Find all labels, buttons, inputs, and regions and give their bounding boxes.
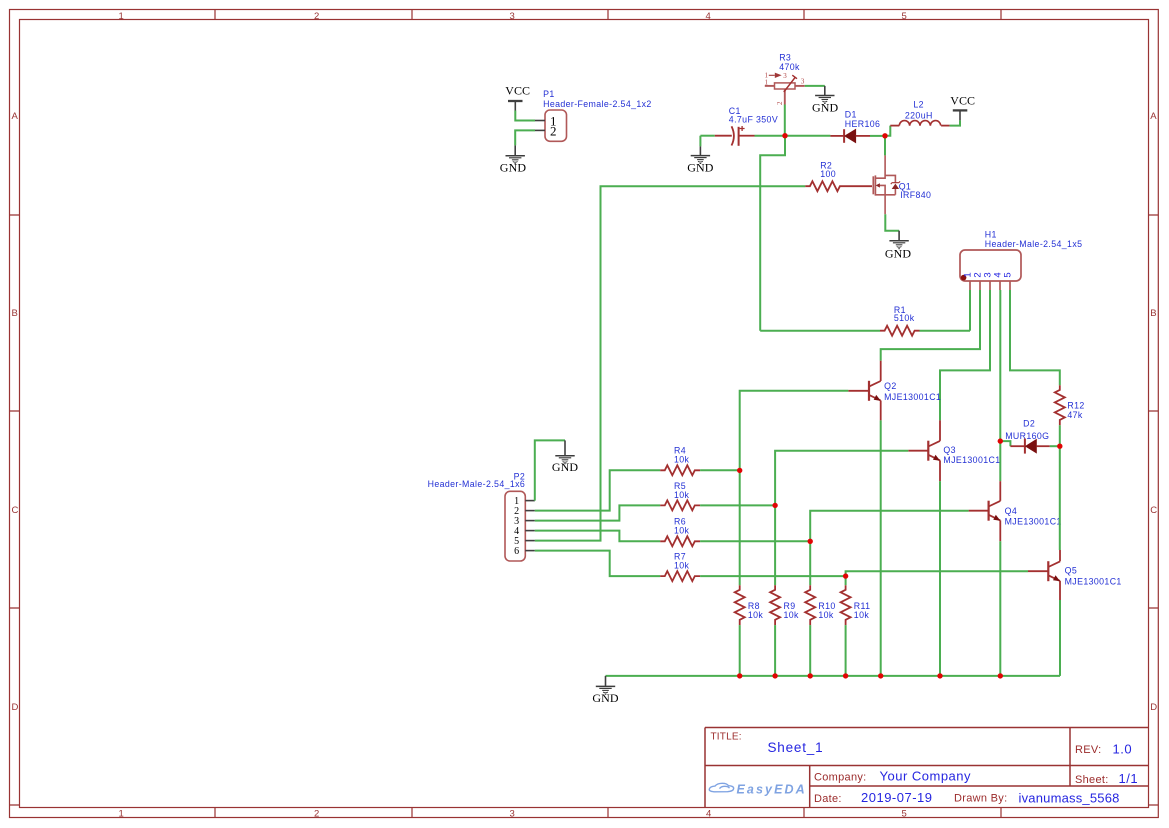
wire P2 pin3 to R5 — [535, 505, 660, 520]
junction bottom R8 — [737, 673, 742, 678]
wire Q2 base from R4 junction — [740, 391, 849, 471]
wire R6 junction down to R10 — [809, 541, 811, 585]
svg-text:MJE13001C1: MJE13001C1 — [943, 455, 1000, 465]
P2 pin 1 — [525, 500, 535, 502]
resistor R6 10k — [660, 517, 700, 547]
svg-text:510k: 510k — [894, 313, 915, 323]
resistor R2 100 — [805, 160, 872, 191]
P1 pin 2 — [535, 129, 545, 131]
wire D1 to junction B — [870, 135, 885, 137]
junction B (D1/L2/Q1 drain) — [882, 133, 887, 138]
connector H1 Header-Male-2.54_1x5 — [960, 229, 1082, 281]
diode D1 HER106 — [830, 109, 880, 143]
wire R4 junction down to R8 — [739, 471, 741, 586]
wire Q2 emitter down to bottom rail — [880, 420, 882, 676]
H1 pin 5 — [1009, 281, 1011, 290]
wire R5 to junction R5J — [700, 504, 775, 506]
wire junction B down to Q1 drain — [884, 136, 886, 156]
svg-text:D2: D2 — [1023, 418, 1035, 428]
wire junction B jog up to L2 — [885, 126, 890, 136]
wire Q4 collector from junction D2A — [999, 441, 1001, 481]
svg-text:220uH: 220uH — [905, 111, 933, 121]
wire VCC to P1 pin 1 — [515, 111, 535, 121]
transistor Q2 MJE13001C1 — [848, 361, 941, 421]
wire R3 pin 3 to GND — [805, 85, 825, 87]
svg-text:Sheet:: Sheet: — [1075, 774, 1109, 786]
junction bottom R9 — [772, 673, 777, 678]
wire D2 to junction D2B — [1050, 445, 1060, 447]
svg-text:REV:: REV: — [1075, 744, 1101, 756]
wire R4 to junction R4J — [700, 469, 740, 471]
transistor Q4 MJE13001C1 — [969, 481, 1062, 541]
H1 pin 4 — [999, 281, 1001, 290]
wire Q5 emitter down to bottom rail corner — [1059, 600, 1061, 676]
power flag VCC (P1) — [505, 84, 530, 111]
svg-text:Date:: Date: — [814, 793, 842, 805]
svg-text:GND: GND — [592, 691, 619, 705]
wire P2 pin1 up to GND — [535, 440, 565, 500]
wire top rail left to C1 — [700, 135, 714, 137]
svg-text:HER106: HER106 — [845, 119, 881, 129]
svg-text:MJE13001C1: MJE13001C1 — [1005, 516, 1062, 526]
junction bottom Q3 emitter — [937, 673, 942, 678]
svg-text:Header-Female-2.54_1x2: Header-Female-2.54_1x2 — [543, 99, 652, 109]
junction bottom Q4 emitter — [998, 673, 1003, 678]
resistor R5 10k — [660, 481, 700, 511]
svg-text:EasyEDA: EasyEDA — [737, 782, 807, 796]
svg-text:10k: 10k — [674, 560, 690, 570]
svg-text:1/1: 1/1 — [1119, 771, 1139, 786]
H1 pin 1 — [969, 281, 971, 290]
svg-text:5: 5 — [1002, 272, 1013, 277]
svg-text:GND: GND — [552, 460, 579, 474]
ground GND (P2) — [552, 440, 579, 474]
svg-text:5: 5 — [902, 808, 907, 819]
wire H1 pin1 down to R1 — [969, 290, 971, 331]
svg-text:100: 100 — [820, 169, 836, 179]
svg-text:10k: 10k — [674, 490, 690, 500]
junction bottom R10 — [808, 673, 813, 678]
svg-text:A: A — [1150, 111, 1157, 122]
wire R11 down to bottom rail — [845, 625, 847, 676]
svg-text:47k: 47k — [1067, 410, 1083, 420]
resistor R1 510k — [880, 305, 920, 336]
ground GND (Q1) — [885, 231, 912, 261]
wire H1 pin2 to Q2 collector — [881, 290, 980, 361]
svg-text:10k: 10k — [818, 610, 834, 620]
svg-text:B: B — [1150, 308, 1156, 319]
svg-text:D1: D1 — [845, 109, 857, 119]
wire Q5 base from R7 junction — [846, 571, 1028, 576]
wire R7 junction down to R11 — [845, 576, 847, 585]
junction R5/R9/Q3 base — [772, 503, 777, 508]
svg-text:10k: 10k — [854, 610, 870, 620]
svg-text:Company:: Company: — [814, 772, 867, 784]
wire junction A down-left jog to R1 column — [760, 136, 785, 331]
svg-text:Q5: Q5 — [1065, 565, 1078, 575]
svg-text:MUR160G: MUR160G — [1005, 431, 1049, 441]
svg-text:H1: H1 — [985, 229, 997, 239]
wire Q1 source to GND — [885, 214, 899, 230]
wire junction A to D1 — [785, 135, 830, 137]
svg-text:3: 3 — [510, 11, 515, 22]
svg-text:4: 4 — [706, 11, 711, 22]
junction bottom Q2 emitter — [878, 673, 883, 678]
P2 pin 6 — [525, 550, 535, 552]
svg-text:1: 1 — [119, 11, 124, 22]
ground GND (P1) — [500, 145, 527, 174]
P2 pin 5 — [525, 540, 535, 542]
P1 pin 1 — [535, 120, 545, 122]
ground GND (R3) — [812, 86, 839, 115]
svg-text:3: 3 — [510, 808, 515, 819]
svg-text:L2: L2 — [913, 100, 924, 110]
svg-text:2: 2 — [550, 123, 557, 138]
wire H1 pin5 to R12 — [1010, 290, 1060, 385]
wire Q4 emitter down to bottom rail — [999, 541, 1001, 676]
svg-text:Sheet_1: Sheet_1 — [768, 740, 824, 755]
junction R7/R11/Q5 base — [843, 573, 848, 578]
svg-text:2: 2 — [314, 808, 319, 819]
svg-text:5: 5 — [902, 11, 907, 22]
svg-text:Header-Male-2.54_1x6: Header-Male-2.54_1x6 — [428, 479, 526, 489]
svg-text:VCC: VCC — [950, 93, 975, 107]
wire P2 pin4 to R6 — [535, 531, 660, 542]
svg-text:MJE13001C1: MJE13001C1 — [1065, 576, 1122, 586]
svg-text:Drawn By:: Drawn By: — [954, 793, 1007, 805]
wire P1 pin 2 to GND — [515, 130, 535, 145]
resistor R8 10k — [735, 585, 764, 625]
resistor R11 10k — [841, 585, 871, 625]
svg-text:3: 3 — [783, 72, 787, 80]
ground GND (C1 left) — [687, 136, 714, 175]
junction R4/R8/Q2 base — [737, 468, 742, 473]
P2 pin 3 — [525, 520, 535, 522]
H1 pin 2 — [979, 281, 981, 290]
wire P2 pin5 to R2 (long) — [535, 186, 806, 540]
wire H1 pin3 to Q3 collector — [940, 290, 990, 420]
transistor Q5 MJE13001C1 — [1028, 550, 1122, 600]
svg-text:MJE13001C1: MJE13001C1 — [884, 392, 941, 402]
svg-text:C: C — [12, 505, 19, 516]
wire bottom ground rail — [606, 675, 1061, 677]
wire C1 to junction A — [755, 135, 786, 137]
wire R9 down to bottom rail — [774, 625, 776, 676]
diode D2 MUR160G — [1005, 418, 1050, 453]
svg-text:Q2: Q2 — [884, 381, 897, 391]
svg-text:Your Company: Your Company — [880, 769, 972, 784]
svg-text:P1: P1 — [543, 89, 555, 99]
svg-text:GND: GND — [687, 160, 714, 174]
svg-text:10k: 10k — [674, 526, 690, 536]
wire R10 down to bottom rail — [809, 625, 811, 676]
svg-text:4.7uF 350V: 4.7uF 350V — [729, 115, 778, 125]
wire R3 pin 2 to top rail — [784, 105, 786, 136]
wire R5 junction down to R9 — [774, 505, 776, 585]
svg-text:6: 6 — [514, 546, 519, 557]
wire L2 to VCC — [950, 120, 960, 125]
wire Q3 base from R5 junction — [775, 451, 908, 506]
connector P2 Header-Male-2.54_1x6 — [428, 472, 526, 561]
svg-text:GND: GND — [500, 161, 527, 175]
svg-text:1.0: 1.0 — [1113, 742, 1133, 757]
svg-text:2019-07-19: 2019-07-19 — [861, 790, 933, 805]
svg-text:ivanumass_5568: ivanumass_5568 — [1019, 791, 1120, 806]
svg-text:D: D — [12, 702, 19, 713]
EasyEDA logo — [709, 783, 733, 792]
svg-text:IRF840: IRF840 — [900, 190, 931, 200]
svg-text:TITLE:: TITLE: — [711, 731, 742, 742]
trimmer R3 470k — [765, 52, 805, 105]
svg-text:GND: GND — [885, 247, 912, 261]
resistor R10 10k — [805, 585, 835, 625]
svg-text:2: 2 — [776, 101, 784, 105]
title block — [705, 728, 1149, 808]
svg-text:4: 4 — [706, 808, 711, 819]
junction A (C1/D1/R3) — [782, 133, 787, 138]
wire junction D2A jog to D2 — [1000, 441, 1010, 446]
wire R8 down to bottom rail — [739, 625, 741, 676]
junction D2 cathode / R12 node — [1057, 444, 1062, 449]
wire R7 to junction R7J — [700, 575, 846, 577]
svg-text:Header-Male-2.54_1x5: Header-Male-2.54_1x5 — [985, 239, 1083, 249]
wire Q3 emitter down to bottom rail — [939, 481, 941, 676]
wire H1 pin4 down to junction D2A — [999, 290, 1001, 441]
transistor Q1 IRF840 — [873, 155, 931, 214]
svg-text:B: B — [12, 308, 18, 319]
power flag VCC (L2) — [950, 93, 975, 120]
resistor R12 47k — [1055, 385, 1085, 425]
svg-text:10k: 10k — [748, 610, 764, 620]
junction bottom R11 — [843, 673, 848, 678]
svg-text:470k: 470k — [779, 62, 800, 72]
svg-text:C: C — [1150, 505, 1157, 516]
transistor Q3 MJE13001C1 — [908, 420, 1000, 481]
H1 pin 3 — [989, 281, 991, 290]
inductor L2 220uH — [890, 100, 949, 126]
svg-text:VCC: VCC — [505, 84, 530, 98]
connector P1 Header-Female-2.54_1x2 — [543, 89, 652, 142]
junction D2 anode node — [998, 438, 1003, 443]
svg-text:R3: R3 — [779, 52, 791, 62]
svg-text:2: 2 — [314, 11, 319, 22]
wire R1 right to H1 pin1 — [920, 330, 971, 332]
svg-text:D: D — [1150, 702, 1157, 713]
junction R6/R10/Q4 base — [808, 539, 813, 544]
svg-text:A: A — [12, 111, 19, 122]
capacitor C1 4.7uF 350V — [715, 106, 778, 146]
svg-text:1: 1 — [119, 808, 124, 819]
resistor R9 10k — [770, 585, 799, 625]
wire R12 to junction D2B and down to Q5 collector — [1059, 425, 1061, 550]
svg-text:3: 3 — [801, 78, 805, 86]
svg-text:Q3: Q3 — [943, 445, 956, 455]
P2 pin 4 — [525, 530, 535, 532]
wire P2 pin2 to R4 — [535, 470, 660, 510]
svg-text:GND: GND — [812, 100, 839, 114]
wire R6 to junction R6J — [700, 540, 810, 542]
svg-text:10k: 10k — [784, 610, 800, 620]
svg-text:10k: 10k — [674, 455, 690, 465]
svg-text:Q4: Q4 — [1005, 506, 1018, 516]
ground GND (bottom rail) — [592, 676, 619, 705]
P2 pin 2 — [525, 510, 535, 512]
resistor R4 10k — [660, 445, 700, 475]
wire P2 pin6 to R7 — [535, 551, 660, 577]
wire R1 left to jog column — [760, 330, 880, 332]
wire Q4 base from R6 junction — [810, 511, 968, 542]
resistor R7 10k — [660, 551, 700, 581]
